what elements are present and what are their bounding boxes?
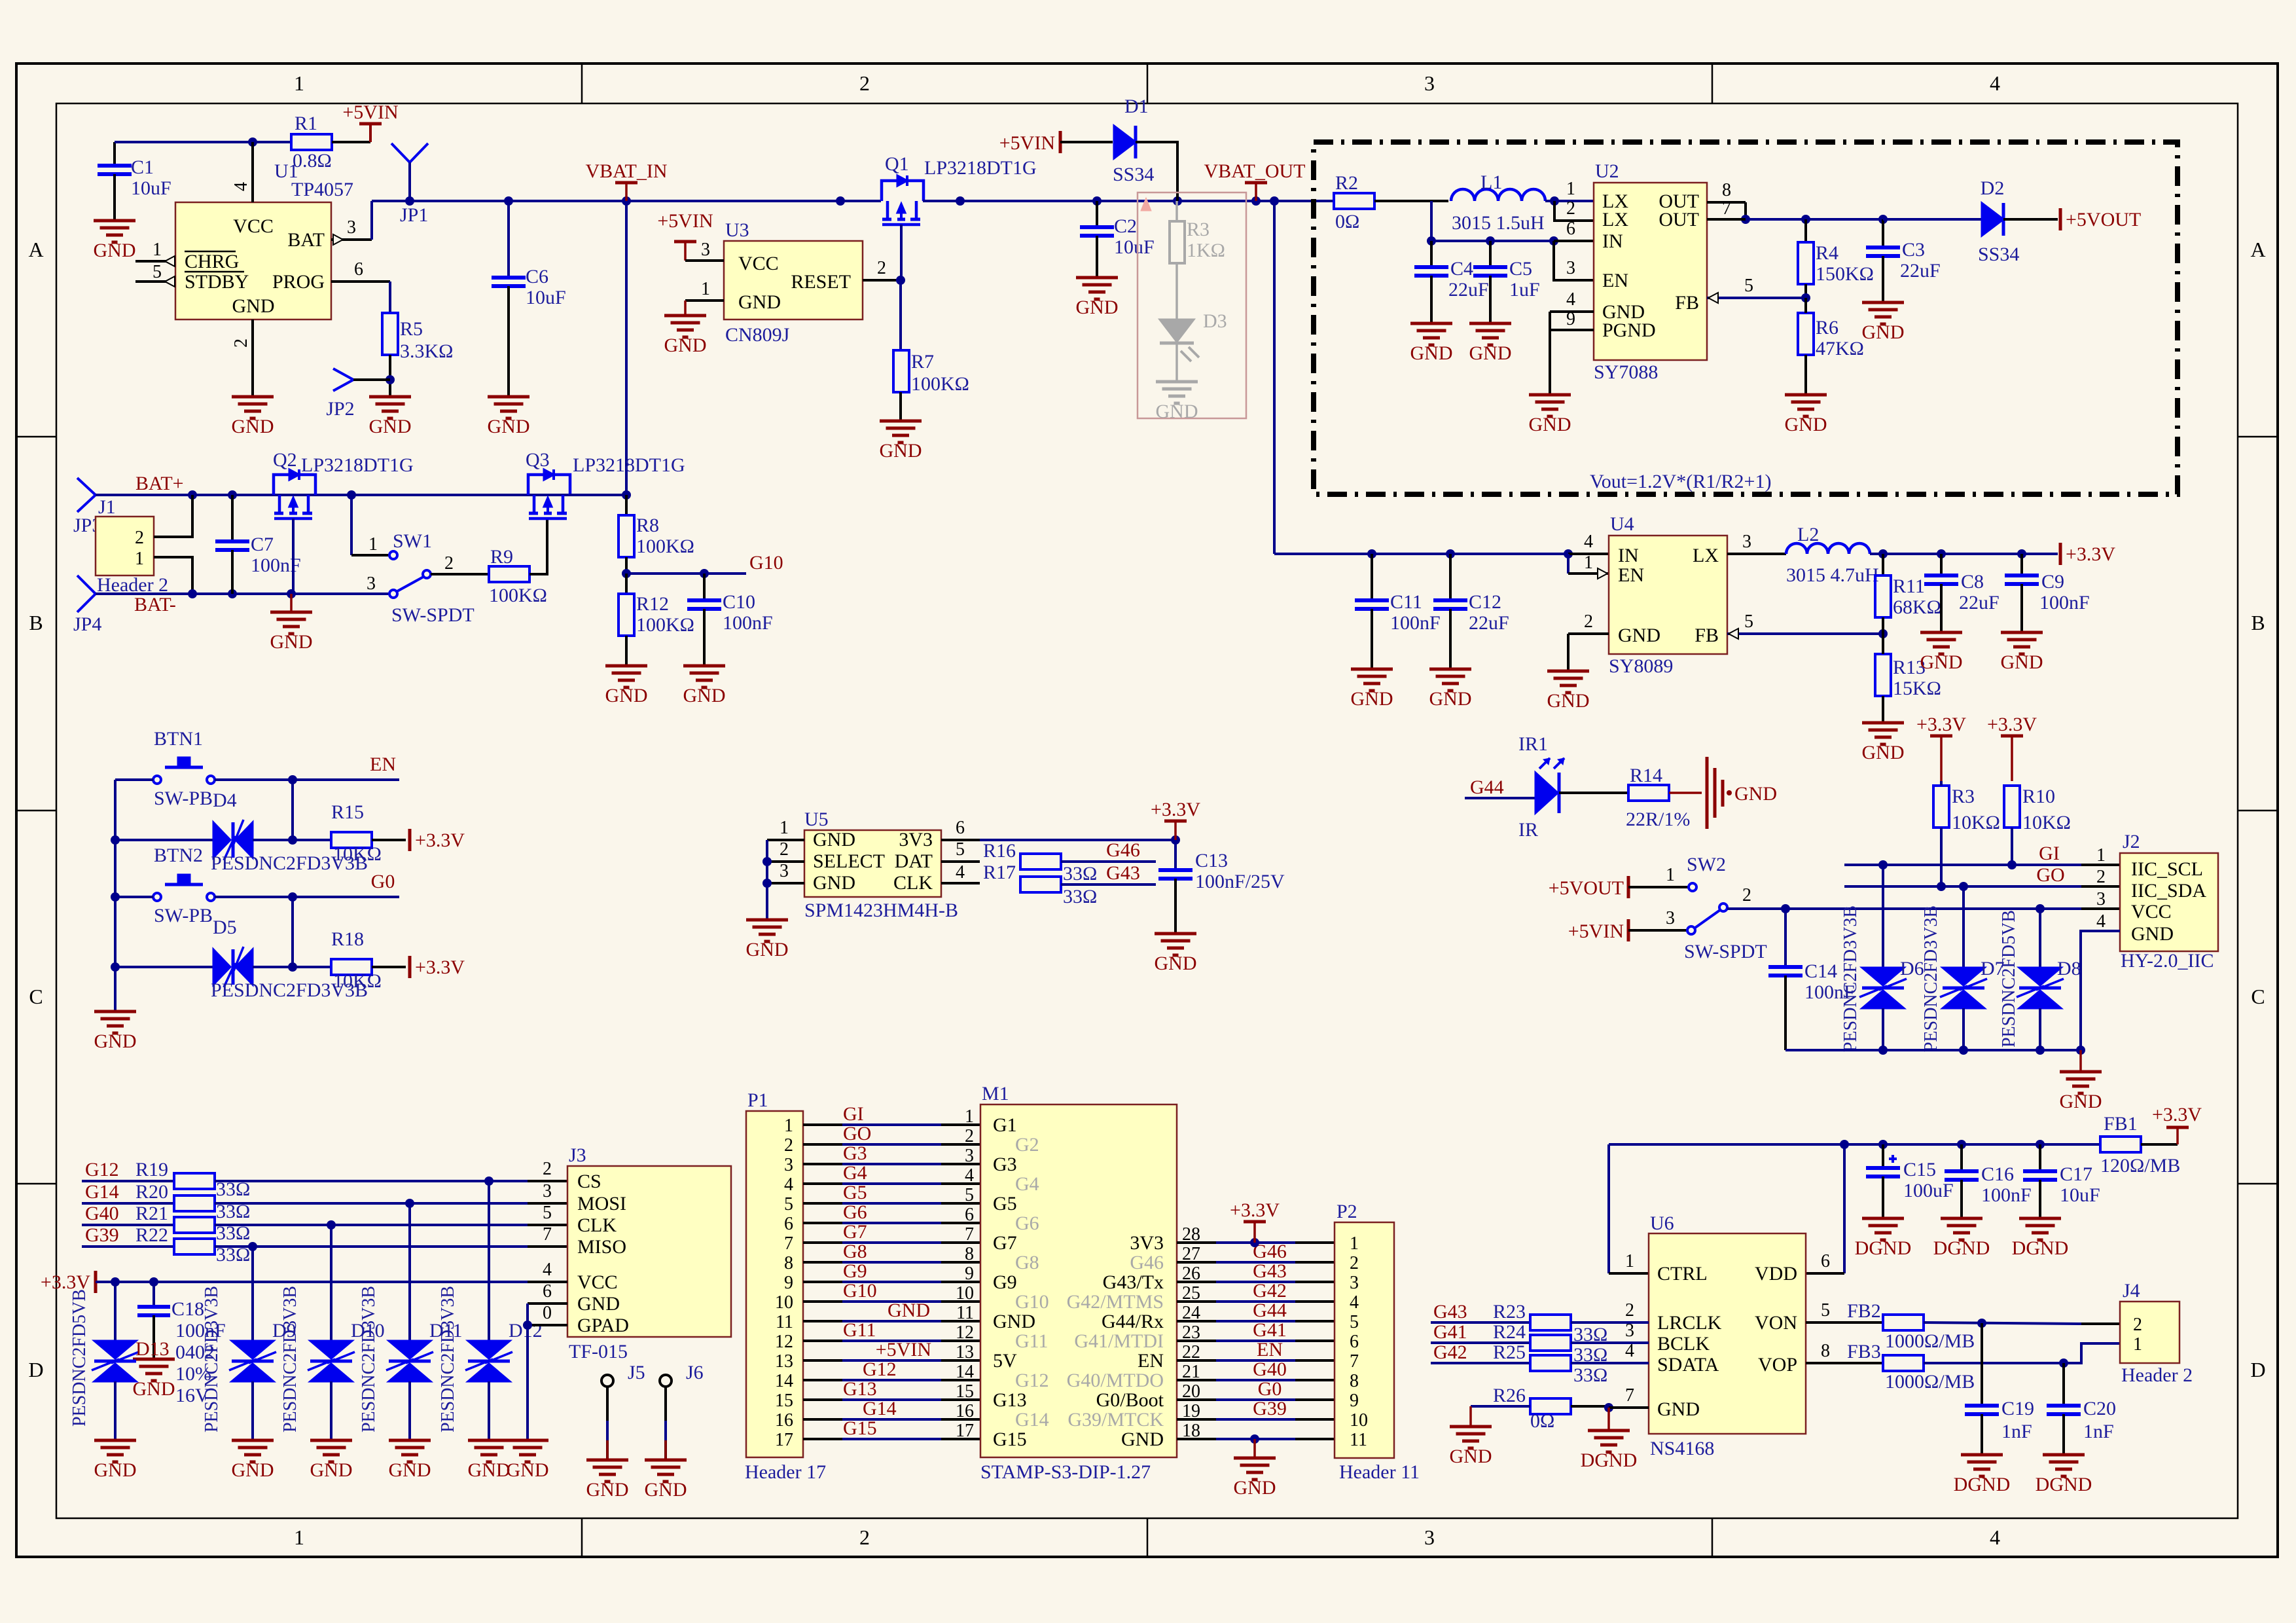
wire EN corner xyxy=(1554,241,1594,280)
svg-text:IIC_SDA: IIC_SDA xyxy=(2131,880,2206,902)
U1 pin 2 to ground xyxy=(231,319,253,397)
header JP3 Header2 xyxy=(96,517,168,596)
ground GND C13 xyxy=(1155,934,1197,974)
svg-text:R15: R15 xyxy=(331,801,364,823)
svg-text:M1: M1 xyxy=(982,1083,1009,1104)
module M1 STAMP-S3 xyxy=(980,1083,1177,1483)
svg-text:G8: G8 xyxy=(1015,1252,1039,1273)
svg-text:100nF/25V: 100nF/25V xyxy=(1195,871,1285,892)
ground GND R6 xyxy=(1785,395,1827,435)
resistor R4 xyxy=(1798,219,1874,285)
svg-text:2: 2 xyxy=(784,1135,793,1156)
svg-text:47KΩ: 47KΩ xyxy=(1816,338,1864,359)
svg-text:GND: GND xyxy=(683,685,726,706)
svg-text:PESDNC2FD5VB: PESDNC2FD5VB xyxy=(69,1289,90,1427)
svg-text:8: 8 xyxy=(1722,180,1731,200)
ferrite FB1 xyxy=(2100,1113,2180,1176)
capacitor C5 xyxy=(1473,241,1540,323)
P2 pin numbers xyxy=(1350,1233,1368,1450)
U1 pin 1 CHRG stub xyxy=(135,240,175,266)
svg-text:GND: GND xyxy=(488,416,530,437)
svg-text:G12: G12 xyxy=(85,1159,119,1180)
button BTN1 xyxy=(153,728,215,809)
svg-text:G3: G3 xyxy=(843,1142,867,1164)
svg-text:1: 1 xyxy=(1666,865,1675,885)
svg-text:G4: G4 xyxy=(1015,1173,1039,1195)
svg-text:STDBY: STDBY xyxy=(185,271,249,293)
M1 right pin numbers xyxy=(1182,1224,1200,1441)
svg-text:1nF: 1nF xyxy=(2083,1421,2114,1442)
svg-text:R14: R14 xyxy=(1630,765,1662,786)
ground GND C6 xyxy=(488,397,530,437)
resistor R2 xyxy=(1334,172,1448,232)
svg-text:G44: G44 xyxy=(1470,776,1504,798)
svg-text:C6: C6 xyxy=(526,266,548,287)
svg-text:1: 1 xyxy=(152,240,162,260)
svg-text:SW-SPDT: SW-SPDT xyxy=(391,604,475,626)
svg-text:B: B xyxy=(2251,611,2265,634)
svg-text:FB1: FB1 xyxy=(2104,1113,2138,1135)
header J4 xyxy=(2120,1280,2193,1386)
testpoint J5 xyxy=(601,1362,645,1460)
svg-text:SPM1423HM4H-B: SPM1423HM4H-B xyxy=(804,900,958,921)
svg-text:+3.3V: +3.3V xyxy=(415,830,465,851)
svg-text:1000Ω/MB: 1000Ω/MB xyxy=(1885,1371,1975,1393)
ground GND R14 reference xyxy=(1707,757,1777,829)
ground GND C12 xyxy=(1429,669,1472,710)
diode D1 SS34 xyxy=(1113,96,1154,185)
svg-text:G44: G44 xyxy=(1253,1300,1287,1321)
svg-text:G43: G43 xyxy=(1433,1301,1467,1322)
svg-text:R12: R12 xyxy=(636,593,669,615)
svg-text:G11: G11 xyxy=(843,1319,876,1341)
svg-text:SDATA: SDATA xyxy=(1657,1354,1719,1376)
wire R1 to +5VIN xyxy=(332,141,370,143)
svg-text:GND: GND xyxy=(507,1459,549,1481)
svg-text:3V3: 3V3 xyxy=(899,829,933,850)
ground GND U1 pin2 xyxy=(232,397,274,437)
net label G42 R25 xyxy=(1431,1341,1649,1386)
svg-text:J6: J6 xyxy=(686,1362,704,1383)
Vout formula xyxy=(1590,471,1771,492)
LED D3 faded xyxy=(1156,310,1227,422)
svg-text:C8: C8 xyxy=(1961,571,1984,593)
svg-text:C: C xyxy=(29,985,43,1008)
wire J2 GND pin xyxy=(2081,931,2120,1050)
svg-text:R7: R7 xyxy=(911,351,934,373)
svg-text:100KΩ: 100KΩ xyxy=(636,536,694,557)
svg-text:GND: GND xyxy=(232,1459,274,1481)
svg-text:GI: GI xyxy=(2039,843,2060,864)
svg-text:C7: C7 xyxy=(251,534,274,555)
svg-text:22uF: 22uF xyxy=(1900,260,1941,282)
svg-text:120Ω/MB: 120Ω/MB xyxy=(2100,1155,2180,1176)
svg-text:+5VOUT: +5VOUT xyxy=(2066,209,2141,230)
svg-text:GND: GND xyxy=(880,440,922,462)
wire R8 R12 node G10 xyxy=(622,552,783,578)
svg-text:D13: D13 xyxy=(135,1338,170,1360)
inductor L1 xyxy=(1451,172,1545,234)
svg-text:1000Ω/MB: 1000Ω/MB xyxy=(1885,1330,1975,1352)
net G39 resistor R22 xyxy=(82,1224,567,1266)
ferrite FB2 VON xyxy=(1806,1300,2120,1352)
svg-text:+3.3V: +3.3V xyxy=(1230,1199,1280,1221)
svg-text:2: 2 xyxy=(2133,1315,2142,1335)
svg-text:7: 7 xyxy=(1722,198,1731,219)
wire R7 to ground xyxy=(899,392,902,421)
svg-text:10uF: 10uF xyxy=(1114,236,1155,258)
svg-text:+3.3V: +3.3V xyxy=(1916,714,1966,735)
svg-text:4: 4 xyxy=(784,1175,793,1195)
U4 FB wire xyxy=(1727,611,1888,639)
svg-text:6: 6 xyxy=(1821,1251,1830,1271)
U1 pin 6 PROG wire xyxy=(331,259,390,313)
power +5VIN U3 xyxy=(657,210,713,261)
svg-text:7: 7 xyxy=(543,1224,552,1245)
svg-text:U3: U3 xyxy=(725,219,749,241)
svg-text:G41: G41 xyxy=(1253,1319,1287,1341)
svg-text:G7: G7 xyxy=(843,1221,867,1243)
svg-text:4: 4 xyxy=(956,862,965,883)
U3 pin 1 to ground xyxy=(685,279,724,316)
svg-text:8: 8 xyxy=(965,1244,974,1264)
capacitor C17 xyxy=(2023,1144,2100,1218)
svg-text:GND: GND xyxy=(586,1479,629,1501)
svg-text:3: 3 xyxy=(367,574,376,594)
wire CTRL vertical xyxy=(1609,1144,1649,1273)
svg-text:Vout=1.2V*(R1/R2+1): Vout=1.2V*(R1/R2+1) xyxy=(1590,471,1771,492)
capacitor C6 xyxy=(492,201,566,397)
svg-text:U2: U2 xyxy=(1595,160,1619,182)
resistor R13 xyxy=(1875,634,1941,723)
resistor R11 xyxy=(1875,554,1941,618)
svg-text:3: 3 xyxy=(1424,1525,1435,1549)
svg-text:EN: EN xyxy=(370,754,396,775)
svg-text:6: 6 xyxy=(956,818,965,838)
svg-text:C10: C10 xyxy=(723,591,755,613)
ground GND U5 xyxy=(746,920,789,960)
resistor R14 xyxy=(1559,765,1702,830)
header P1 xyxy=(745,1089,826,1483)
svg-text:G41/MTDI: G41/MTDI xyxy=(1074,1330,1164,1352)
transistor Q1 xyxy=(882,153,1037,225)
svg-text:G9: G9 xyxy=(993,1271,1017,1293)
svg-text:15: 15 xyxy=(956,1381,974,1402)
ground GND J6 xyxy=(645,1460,687,1501)
wire Q2 gate xyxy=(292,519,295,594)
svg-text:D: D xyxy=(28,1358,43,1381)
svg-text:1: 1 xyxy=(1566,179,1575,199)
svg-text:GND: GND xyxy=(1450,1446,1492,1467)
connector J1 JP3 arrow xyxy=(73,478,116,536)
J3 pin numbers xyxy=(543,1159,552,1323)
svg-text:GND: GND xyxy=(1529,414,1571,435)
svg-text:10uF: 10uF xyxy=(131,177,171,199)
IC J3 TF-015 xyxy=(567,1144,731,1362)
svg-text:G12: G12 xyxy=(863,1359,897,1380)
resistor R3 faded xyxy=(1170,201,1225,319)
jumper JP1 xyxy=(391,143,428,226)
svg-text:4: 4 xyxy=(231,182,251,191)
svg-text:A: A xyxy=(2250,238,2265,261)
svg-text:GND: GND xyxy=(2001,651,2043,673)
svg-text:1: 1 xyxy=(1350,1233,1359,1254)
svg-text:+3.3V: +3.3V xyxy=(1151,799,1200,820)
ground GND U4 xyxy=(1547,671,1590,712)
svg-text:33Ω: 33Ω xyxy=(1063,863,1097,884)
svg-text:GND: GND xyxy=(369,416,412,437)
power +3.3V J3 VCC xyxy=(41,1271,567,1293)
svg-text:10uF: 10uF xyxy=(526,287,566,308)
svg-text:GND: GND xyxy=(310,1459,353,1481)
svg-text:DGND: DGND xyxy=(2036,1474,2092,1495)
ground DGND C15 xyxy=(1855,1218,1912,1259)
U4 pin 1 EN stub xyxy=(1568,553,1609,579)
svg-text:5: 5 xyxy=(956,839,965,860)
ground DGND C20 xyxy=(2036,1455,2092,1495)
svg-text:FB: FB xyxy=(1675,292,1699,314)
svg-text:J3: J3 xyxy=(569,1144,586,1166)
svg-text:2: 2 xyxy=(444,553,454,574)
svg-text:IR1: IR1 xyxy=(1518,733,1548,755)
diode D11 TVS xyxy=(359,1203,463,1440)
svg-text:SW-PB: SW-PB xyxy=(154,905,213,926)
svg-text:+3.3V: +3.3V xyxy=(1987,714,2037,735)
svg-text:G3: G3 xyxy=(993,1154,1017,1175)
svg-text:G11: G11 xyxy=(1015,1330,1049,1352)
svg-text:3: 3 xyxy=(784,1155,793,1175)
svg-text:GND: GND xyxy=(1547,690,1590,712)
svg-text:G40/MTDO: G40/MTDO xyxy=(1067,1370,1164,1391)
svg-text:100nF: 100nF xyxy=(2039,592,2090,613)
svg-text:5: 5 xyxy=(152,262,162,282)
wire VBAT to U4 xyxy=(1274,201,1573,558)
capacitor C20 xyxy=(2047,1363,2116,1455)
svg-text:1: 1 xyxy=(2096,845,2106,866)
svg-text:HY-2.0_IIC: HY-2.0_IIC xyxy=(2121,950,2214,972)
U3 pin 3 xyxy=(685,240,724,261)
IC U3 CN809J xyxy=(724,219,863,346)
svg-text:G13: G13 xyxy=(843,1378,877,1400)
svg-text:G12: G12 xyxy=(1015,1370,1049,1391)
power +3.3V 3V3 row xyxy=(1230,1199,1280,1247)
svg-text:C16: C16 xyxy=(1981,1163,2014,1185)
svg-text:+5VIN: +5VIN xyxy=(999,132,1055,154)
ground GND J5 xyxy=(586,1460,629,1501)
ferrite FB3 VOP xyxy=(1806,1341,2120,1393)
svg-text:J2: J2 xyxy=(2123,831,2140,852)
svg-text:100KΩ: 100KΩ xyxy=(489,585,547,606)
power +3.3V U5 xyxy=(1151,799,1200,840)
wire GO net xyxy=(1844,864,2120,891)
svg-text:GND: GND xyxy=(2060,1091,2102,1112)
svg-text:LX: LX xyxy=(1602,209,1628,230)
wire Q3 to VBAT vertical xyxy=(569,494,626,496)
ground GND R13 xyxy=(1862,723,1905,763)
svg-text:G10: G10 xyxy=(843,1280,877,1302)
svg-text:G10: G10 xyxy=(749,552,783,574)
svg-text:CS: CS xyxy=(577,1171,601,1192)
svg-text:VBAT_OUT: VBAT_OUT xyxy=(1204,160,1306,182)
svg-text:4: 4 xyxy=(965,1165,974,1186)
svg-text:VCC: VCC xyxy=(233,215,274,237)
svg-text:17: 17 xyxy=(775,1430,793,1450)
svg-text:PESDNC2FD3V3B: PESDNC2FD3V3B xyxy=(359,1286,379,1432)
svg-text:R5: R5 xyxy=(400,318,423,340)
U1 pin 5 STDBY stub xyxy=(135,262,175,287)
svg-text:C19: C19 xyxy=(2001,1398,2034,1419)
svg-text:GO: GO xyxy=(843,1123,871,1144)
capacitor C12 xyxy=(1433,554,1509,669)
power +3.3V FB1 xyxy=(2152,1104,2202,1144)
svg-text:G39: G39 xyxy=(1253,1398,1287,1419)
svg-text:FB3: FB3 xyxy=(1847,1341,1881,1362)
wire R4 to FB xyxy=(1707,276,1810,303)
svg-text:LX: LX xyxy=(1693,545,1719,566)
svg-text:5V: 5V xyxy=(993,1350,1017,1372)
svg-text:GND: GND xyxy=(1410,342,1453,364)
svg-text:22uF: 22uF xyxy=(1448,279,1489,301)
svg-text:R24: R24 xyxy=(1493,1321,1526,1343)
svg-text:BAT: BAT xyxy=(287,229,325,251)
svg-text:FB2: FB2 xyxy=(1847,1300,1881,1322)
svg-text:D2: D2 xyxy=(1981,177,2005,199)
svg-text:D5: D5 xyxy=(213,917,237,938)
svg-text:2: 2 xyxy=(543,1159,552,1179)
svg-text:A: A xyxy=(28,238,43,261)
svg-text:GND: GND xyxy=(1429,688,1472,710)
svg-text:G46: G46 xyxy=(1130,1252,1164,1273)
svg-text:PROG: PROG xyxy=(272,271,325,293)
ground GND P2 symbol xyxy=(1234,1458,1276,1499)
svg-text:G44/Rx: G44/Rx xyxy=(1102,1311,1164,1332)
svg-text:IN: IN xyxy=(1618,545,1639,566)
svg-text:14: 14 xyxy=(775,1371,793,1391)
wire EN net xyxy=(115,754,399,784)
wire LX2 corner xyxy=(1554,201,1594,221)
svg-text:1: 1 xyxy=(368,534,378,555)
svg-text:IR: IR xyxy=(1518,819,1538,841)
svg-text:0Ω: 0Ω xyxy=(1530,1410,1554,1432)
svg-text:1: 1 xyxy=(780,818,789,838)
J2 pin numbers xyxy=(2096,845,2106,932)
svg-text:R16: R16 xyxy=(983,840,1016,862)
svg-text:1: 1 xyxy=(1584,553,1593,573)
ground GND R7 xyxy=(880,421,922,462)
U3 pin 2 RESET wire xyxy=(863,258,905,285)
svg-text:G10: G10 xyxy=(1015,1291,1049,1313)
svg-text:U5: U5 xyxy=(804,809,829,830)
svg-text:B: B xyxy=(29,611,43,634)
capacitor C11 xyxy=(1355,554,1441,669)
svg-text:D4: D4 xyxy=(213,790,237,811)
capacitor C1 xyxy=(98,142,171,221)
ground GND row18 xyxy=(1250,1434,1259,1458)
svg-text:GND: GND xyxy=(94,240,136,261)
IC U6 NS4168 xyxy=(1649,1213,1806,1459)
svg-text:100uF: 100uF xyxy=(1903,1180,1954,1201)
svg-text:GND: GND xyxy=(1734,783,1777,805)
svg-text:G43/Tx: G43/Tx xyxy=(1103,1271,1164,1293)
resistor R3 xyxy=(1933,781,2000,886)
svg-text:6: 6 xyxy=(965,1205,974,1225)
capacitor C16 xyxy=(1945,1144,2032,1218)
button BTN2 xyxy=(153,845,215,926)
svg-text:3: 3 xyxy=(780,861,789,881)
svg-text:GND: GND xyxy=(2131,923,2174,945)
power +5VOUT xyxy=(2003,208,2141,230)
svg-text:BTN2: BTN2 xyxy=(154,845,203,866)
resistor R15 xyxy=(331,801,406,865)
header P2 xyxy=(1335,1201,1420,1483)
svg-text:22uF: 22uF xyxy=(1959,592,2000,613)
svg-text:U6: U6 xyxy=(1650,1213,1674,1234)
wire VBAT_IN bus xyxy=(372,196,881,206)
svg-text:IIC_SCL: IIC_SCL xyxy=(2131,858,2203,880)
resistor R8 xyxy=(619,495,694,557)
U5 pin 4 CLK resistor R17 xyxy=(941,862,1156,907)
svg-text:10: 10 xyxy=(1350,1410,1368,1431)
svg-text:GND: GND xyxy=(1862,321,1905,343)
wire G0 net xyxy=(115,871,399,902)
svg-text:LP3218DT1G: LP3218DT1G xyxy=(573,454,685,476)
svg-text:VON: VON xyxy=(1755,1312,1797,1334)
svg-text:GND: GND xyxy=(605,685,648,706)
power VBAT_OUT xyxy=(1204,160,1306,201)
svg-text:G6: G6 xyxy=(843,1201,867,1223)
svg-text:3: 3 xyxy=(1424,71,1435,95)
ground GND D11 xyxy=(389,1440,431,1481)
svg-text:9: 9 xyxy=(965,1264,974,1284)
svg-text:68KΩ: 68KΩ xyxy=(1893,596,1941,618)
svg-text:+5VIN: +5VIN xyxy=(657,210,713,232)
svg-text:JP4: JP4 xyxy=(73,613,101,635)
svg-text:PESDNC2FD3V3B: PESDNC2FD3V3B xyxy=(202,1286,222,1432)
svg-text:7: 7 xyxy=(1625,1385,1634,1406)
svg-text:PESDNC2FD5VB: PESDNC2FD5VB xyxy=(1999,910,2019,1048)
svg-text:JP1: JP1 xyxy=(400,204,428,226)
svg-text:10KΩ: 10KΩ xyxy=(2022,812,2071,833)
svg-text:C20: C20 xyxy=(2083,1398,2116,1419)
wire C1 to R1 xyxy=(115,137,291,147)
svg-text:D8: D8 xyxy=(2057,958,2081,979)
svg-text:0: 0 xyxy=(543,1303,552,1323)
svg-text:G5: G5 xyxy=(993,1193,1017,1214)
svg-text:GND: GND xyxy=(1469,342,1512,364)
capacitor C15 polarized xyxy=(1866,1144,1954,1218)
power +3.3V R10 xyxy=(1987,714,2037,781)
svg-text:100nF: 100nF xyxy=(723,612,773,634)
svg-text:PESDNC2FD3V3B: PESDNC2FD3V3B xyxy=(1921,905,1941,1052)
svg-text:4: 4 xyxy=(1990,71,2000,95)
net label G44 xyxy=(1465,776,1535,798)
svg-text:C5: C5 xyxy=(1509,258,1532,280)
svg-text:R1: R1 xyxy=(295,113,317,134)
svg-text:R18: R18 xyxy=(331,928,364,950)
transistor Q2 xyxy=(273,449,414,519)
svg-text:16: 16 xyxy=(775,1410,793,1431)
svg-text:G0: G0 xyxy=(1258,1378,1282,1400)
diode D9 TVS xyxy=(202,1247,296,1440)
M1 left pin numbers xyxy=(956,1106,974,1441)
power +5VIN xyxy=(342,101,398,142)
capacitor C13 xyxy=(1158,840,1285,934)
ground DGND U6 xyxy=(1581,1408,1638,1471)
svg-text:15: 15 xyxy=(775,1391,793,1411)
U1 pin 4 xyxy=(231,142,253,202)
svg-text:GND: GND xyxy=(1076,297,1119,318)
svg-text:R17: R17 xyxy=(983,862,1016,883)
